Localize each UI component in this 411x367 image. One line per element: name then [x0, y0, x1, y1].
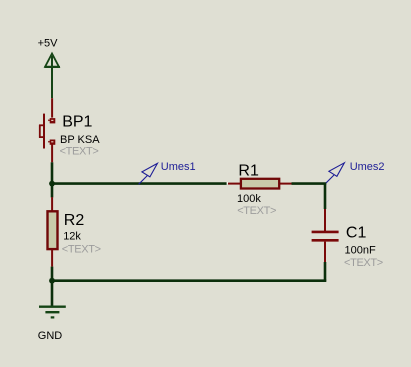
label 100k [237, 193, 261, 205]
resistor R1 leads [228, 183, 292, 185]
wire: main horizontal net Umes1 [52, 182, 227, 185]
label BP1 [62, 114, 92, 131]
svg-text:<TEXT>: <TEXT> [60, 145, 99, 157]
svg-text:12k: 12k [63, 231, 81, 243]
capacitor C1 bottom red pin [324, 242, 326, 262]
svg-text:GND: GND [38, 330, 63, 342]
svg-text:+5V: +5V [38, 37, 59, 49]
wire: right rail down to C1 [324, 183, 327, 209]
label &lt;TEXT&gt; of R1 [237, 205, 276, 217]
resistor R2 top red pin [51, 197, 53, 210]
pin end marker at R1 left [227, 182, 229, 184]
wire: R2 to ground [51, 267, 54, 307]
node junction left bottom [49, 278, 55, 284]
svg-text:R1: R1 [238, 162, 259, 179]
resistor R2 body [48, 211, 58, 249]
label &lt;TEXT&gt; of C1 [344, 257, 383, 269]
svg-text:100nF: 100nF [345, 244, 376, 256]
resistor R1 body [241, 179, 279, 189]
svg-text:BP KSA: BP KSA [60, 134, 100, 146]
svg-text:Umes2: Umes2 [350, 161, 385, 173]
capacitor C1 plates [312, 232, 339, 240]
label R2 [64, 212, 85, 229]
ground symbol [39, 307, 66, 318]
wire: red pin BP1 bottom [51, 144, 53, 163]
svg-text:BP1: BP1 [62, 114, 92, 131]
label C1 [346, 225, 367, 242]
label &lt;TEXT&gt; of BP1 [60, 145, 99, 157]
label 100nF [345, 244, 376, 256]
label GND [38, 330, 63, 342]
wire: R1 to right corner [292, 182, 327, 185]
power +5V label [38, 37, 59, 49]
resistor R2 bottom red pin [51, 250, 53, 267]
wire: red pin power to BP1 top [51, 98, 53, 117]
capacitor C1 top red pin [324, 209, 326, 231]
svg-text:100k: 100k [237, 193, 261, 205]
probe Umes1 arrow [139, 163, 158, 184]
svg-text:<TEXT>: <TEXT> [237, 205, 276, 217]
pushbutton BP1 [39, 114, 55, 149]
probe Umes2 arrow [325, 163, 344, 184]
svg-text:<TEXT>: <TEXT> [344, 257, 383, 269]
power +5V arrow symbol [44, 54, 60, 99]
label Umes1 [161, 161, 196, 173]
label BP KSA [60, 134, 100, 146]
label 12k [63, 231, 81, 243]
label R1 [238, 162, 259, 179]
svg-text:<TEXT>: <TEXT> [62, 243, 101, 255]
svg-text:C1: C1 [346, 225, 367, 242]
svg-text:R2: R2 [64, 212, 85, 229]
wire: bottom horizontal net [52, 279, 326, 282]
label &lt;TEXT&gt; of R2 [62, 243, 101, 255]
svg-text:Umes1: Umes1 [161, 161, 196, 173]
wire: BP1 to junction to R2 (left rail green) [51, 162, 54, 197]
wire: C1 to bottom corner [324, 262, 327, 282]
node junction left top [49, 181, 55, 187]
label Umes2 [350, 161, 385, 173]
